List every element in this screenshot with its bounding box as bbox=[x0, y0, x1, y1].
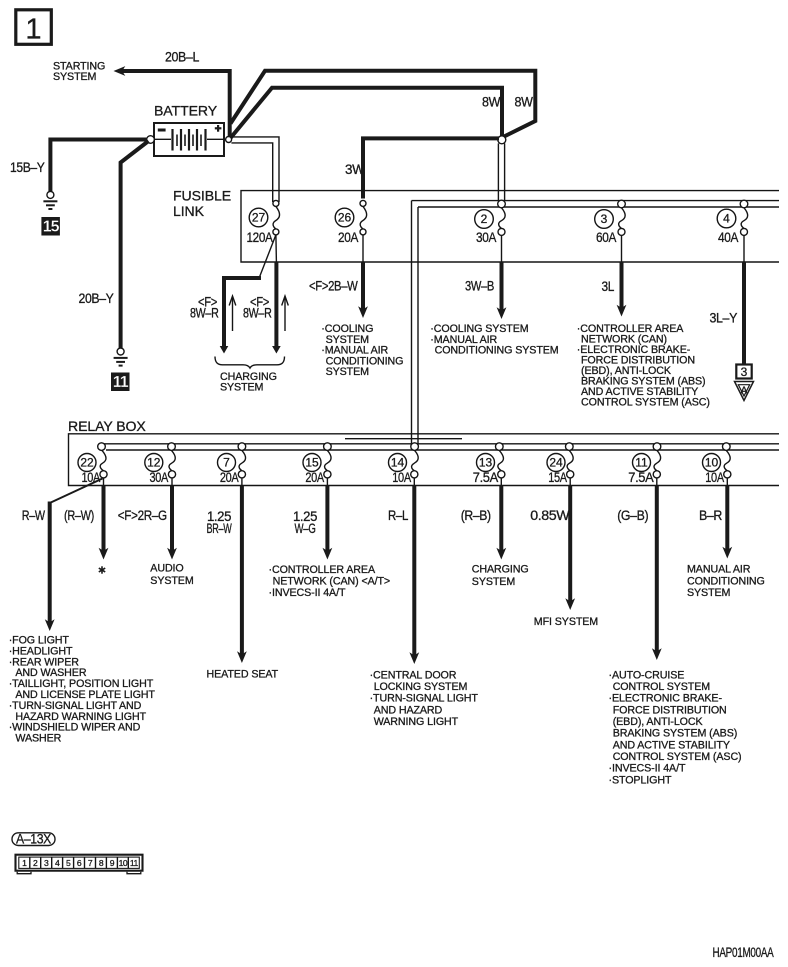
label AUDIO SYSTEM bbox=[150, 563, 194, 587]
svg-text:27: 27 bbox=[252, 211, 266, 225]
wire fuse 13 down bbox=[500, 478, 502, 552]
svg-text:CONTROL SYSTEM (ASC): CONTROL SYSTEM (ASC) bbox=[613, 751, 742, 763]
svg-text:NETWORK (CAN) <A/T>: NETWORK (CAN) <A/T> bbox=[273, 576, 390, 588]
wire 3W to fuse 26 bbox=[363, 138, 499, 198]
svg-text:6: 6 bbox=[77, 858, 82, 868]
wire fuse 15 down bbox=[326, 478, 328, 552]
svg-text:CONDITIONING: CONDITIONING bbox=[687, 575, 765, 587]
svg-text:SYSTEM: SYSTEM bbox=[53, 71, 97, 83]
wire fuse 2 down bbox=[501, 235, 503, 312]
svg-text:10A: 10A bbox=[392, 470, 411, 485]
arrowhead asterisk wire bbox=[99, 548, 109, 560]
svg-text:CONTROL SYSTEM (ASC): CONTROL SYSTEM (ASC) bbox=[581, 397, 710, 409]
fuse 7 bbox=[238, 443, 246, 478]
svg-text:·INVECS-II 4A/T: ·INVECS-II 4A/T bbox=[609, 763, 686, 775]
svg-text:B–R: B–R bbox=[699, 508, 723, 523]
svg-text:BRAKING SYSTEM (ABS): BRAKING SYSTEM (ABS) bbox=[613, 728, 738, 740]
ground 15 bbox=[43, 191, 57, 209]
label FUSIBLE LINK bbox=[173, 187, 231, 219]
label F 8W-R left bbox=[190, 294, 219, 320]
svg-text:AUDIO: AUDIO bbox=[150, 563, 183, 575]
bus wire down to relay box outer bbox=[411, 201, 413, 444]
wire fuse 27 to charging left bbox=[224, 235, 276, 346]
svg-text:·ELECTRONIC BRAKE-: ·ELECTRONIC BRAKE- bbox=[609, 693, 723, 705]
svg-text:5: 5 bbox=[66, 858, 71, 868]
svg-text:8W–R: 8W–R bbox=[243, 306, 272, 321]
fuse 13 bbox=[496, 443, 505, 478]
svg-text:R–L: R–L bbox=[388, 508, 409, 523]
wire battery minus to ground 15 bbox=[50, 140, 147, 192]
connector label A-13X bbox=[12, 831, 55, 846]
svg-text:1: 1 bbox=[25, 14, 41, 46]
svg-text:<F>2R–G: <F>2R–G bbox=[118, 508, 167, 523]
label F 8W-R right bbox=[243, 294, 272, 320]
fuse 12 number bbox=[145, 454, 163, 472]
svg-text:15: 15 bbox=[43, 219, 60, 236]
fuse 2 number bbox=[475, 210, 494, 229]
fuse 4 bbox=[740, 200, 748, 235]
svg-text:CONDITIONING SYSTEM: CONDITIONING SYSTEM bbox=[435, 345, 559, 357]
svg-text:FORCE DISTRIBUTION: FORCE DISTRIBUTION bbox=[613, 704, 727, 716]
off-page connector box 3 bbox=[736, 365, 751, 379]
wire 20B-Y to ground 11 bbox=[121, 141, 149, 348]
svg-text:FUSIBLE: FUSIBLE bbox=[173, 187, 231, 203]
svg-text:3: 3 bbox=[741, 365, 748, 379]
fuse 11 bbox=[653, 443, 661, 478]
fuse 14 number bbox=[389, 454, 407, 472]
svg-text:7: 7 bbox=[88, 858, 93, 868]
arrowhead fuse 3 bbox=[617, 305, 627, 317]
svg-text:2: 2 bbox=[481, 212, 488, 226]
svg-text:2: 2 bbox=[33, 858, 38, 868]
svg-text:SYSTEM: SYSTEM bbox=[150, 575, 194, 587]
svg-text:7: 7 bbox=[223, 456, 230, 470]
svg-text:7.5A: 7.5A bbox=[473, 470, 498, 485]
arrowhead manual air bbox=[722, 547, 732, 559]
svg-text:RELAY BOX: RELAY BOX bbox=[68, 418, 146, 434]
wire fuse 11 down bbox=[656, 478, 658, 653]
svg-text:10: 10 bbox=[705, 456, 719, 470]
svg-text:MANUAL AIR: MANUAL AIR bbox=[687, 564, 751, 576]
bus wire down to relay box inner bbox=[417, 207, 419, 444]
svg-text:LOCKING SYSTEM: LOCKING SYSTEM bbox=[374, 681, 468, 693]
wire fuse 26 down bbox=[362, 235, 364, 311]
list cooling system left bbox=[321, 323, 403, 378]
svg-text:R–W: R–W bbox=[22, 508, 46, 523]
fuse 22 bbox=[98, 443, 107, 478]
svg-text:20B–Y: 20B–Y bbox=[79, 291, 114, 306]
wire fuse 27 to charging right bbox=[275, 235, 278, 346]
fuse 13 number bbox=[477, 454, 495, 472]
svg-text:20A: 20A bbox=[338, 230, 358, 245]
connector A-13X body bbox=[16, 855, 143, 874]
svg-text:14: 14 bbox=[391, 456, 405, 470]
list CAN AT INVECS bbox=[269, 564, 391, 599]
wire double feed to fuse 2 bbox=[498, 143, 504, 201]
node junction 8W bbox=[498, 136, 506, 144]
fuse 26 bbox=[360, 200, 367, 235]
svg-text:SYSTEM: SYSTEM bbox=[220, 382, 264, 394]
wire 8W upper bbox=[231, 71, 536, 137]
fusible link bus rail upper bbox=[412, 200, 780, 202]
svg-text:BATTERY: BATTERY bbox=[154, 102, 218, 118]
svg-text:26: 26 bbox=[338, 211, 352, 225]
svg-text:4: 4 bbox=[55, 858, 60, 868]
terminal charging right bbox=[272, 346, 281, 354]
svg-text:4: 4 bbox=[723, 212, 730, 226]
arrowhead MFI bbox=[565, 598, 575, 610]
svg-text:3: 3 bbox=[601, 212, 608, 226]
svg-text:·CONTROLLER AREA: ·CONTROLLER AREA bbox=[269, 564, 376, 576]
svg-text:3L–Y: 3L–Y bbox=[710, 311, 738, 326]
svg-text:1: 1 bbox=[22, 858, 27, 868]
ground 11 bbox=[114, 348, 128, 366]
svg-text:BR–W: BR–W bbox=[207, 521, 232, 536]
svg-text:3: 3 bbox=[44, 858, 49, 868]
svg-text:AND HAZARD: AND HAZARD bbox=[374, 704, 443, 716]
svg-text:SYSTEM: SYSTEM bbox=[687, 587, 731, 599]
wire fuse 3 down bbox=[621, 235, 623, 309]
fuse 15 number bbox=[303, 454, 321, 472]
wire fuse 24 down bbox=[569, 478, 571, 603]
terminal charging left bbox=[220, 346, 229, 354]
svg-text:120A: 120A bbox=[247, 230, 273, 245]
fusible link bus rail lower bbox=[418, 206, 779, 208]
svg-text:(R–B): (R–B) bbox=[461, 508, 491, 523]
svg-text:·CENTRAL DOOR: ·CENTRAL DOOR bbox=[370, 669, 457, 681]
svg-text:·TURN-SIGNAL LIGHT: ·TURN-SIGNAL LIGHT bbox=[370, 693, 479, 705]
fuse 7 number bbox=[218, 454, 236, 472]
arrowhead audio system bbox=[167, 548, 177, 560]
arrowhead CAN AT bbox=[323, 548, 333, 560]
svg-text:LINK: LINK bbox=[173, 203, 205, 219]
svg-text:<F>2B–W: <F>2B–W bbox=[309, 279, 358, 294]
svg-text:8W–R: 8W–R bbox=[190, 306, 219, 321]
wire fuse 12 down bbox=[171, 478, 173, 552]
svg-text:WARNING LIGHT: WARNING LIGHT bbox=[374, 716, 459, 728]
brace charging system bbox=[215, 357, 285, 369]
label 1.25 BR-W bbox=[207, 509, 232, 536]
node bus to rail bbox=[411, 443, 419, 451]
fuse 14 bbox=[411, 450, 419, 478]
fuse 22 number bbox=[78, 454, 96, 472]
svg-text:10A: 10A bbox=[82, 470, 101, 485]
rail stub segment bbox=[345, 438, 462, 440]
svg-text:15A: 15A bbox=[548, 470, 567, 485]
fuse 24 bbox=[566, 443, 574, 478]
wire fuse 7 down bbox=[241, 478, 243, 656]
svg-text:11: 11 bbox=[113, 374, 129, 391]
svg-text:11: 11 bbox=[635, 456, 648, 470]
svg-text:A–13X: A–13X bbox=[16, 831, 51, 846]
svg-text:20B–L: 20B–L bbox=[165, 50, 200, 65]
wire battery plus to fuse 27 lower bbox=[231, 143, 272, 202]
relay box bbox=[69, 434, 780, 486]
arrowhead central door bbox=[409, 652, 419, 664]
ground reference box 15 bbox=[41, 217, 60, 236]
arrowhead fuse 2 bbox=[497, 307, 507, 319]
page number box 1 bbox=[16, 10, 52, 46]
svg-text:3W–B: 3W–B bbox=[465, 279, 494, 294]
arrowhead fog light bbox=[45, 619, 55, 631]
svg-text:7.5A: 7.5A bbox=[628, 470, 653, 485]
svg-text:13: 13 bbox=[479, 456, 493, 470]
svg-text:CHARGING: CHARGING bbox=[472, 564, 529, 576]
svg-text:(EBD), ANTI-LOCK: (EBD), ANTI-LOCK bbox=[613, 716, 704, 728]
fuse 15 bbox=[324, 443, 332, 478]
svg-text:60A: 60A bbox=[596, 230, 616, 245]
svg-text:HEATED SEAT: HEATED SEAT bbox=[207, 669, 279, 681]
svg-text:W–G: W–G bbox=[295, 521, 316, 536]
arrowhead auto-cruise bbox=[652, 648, 662, 660]
label CHARGING SYSTEM 2 bbox=[472, 564, 529, 588]
label MANUAL AIR CONDITIONING SYSTEM bbox=[687, 564, 765, 600]
list fog light headlight bbox=[9, 635, 156, 745]
arrow up right bbox=[282, 296, 289, 331]
svg-text:8: 8 bbox=[99, 858, 104, 868]
svg-text:(R–W): (R–W) bbox=[64, 508, 94, 523]
fuse 10 bbox=[723, 443, 731, 478]
svg-text:MFI SYSTEM: MFI SYSTEM bbox=[534, 616, 599, 628]
svg-text:9: 9 bbox=[110, 858, 115, 868]
fuse 12 bbox=[168, 443, 176, 478]
fuse 4 number bbox=[717, 209, 736, 228]
svg-text:3W: 3W bbox=[345, 162, 365, 177]
svg-text:3L: 3L bbox=[602, 279, 615, 294]
svg-text:12: 12 bbox=[147, 456, 161, 470]
off-page connector triangle A bbox=[735, 382, 754, 401]
svg-text:·STOPLIGHT: ·STOPLIGHT bbox=[609, 774, 673, 786]
fuse 27 number bbox=[249, 208, 268, 227]
svg-text:·INVECS-II 4A/T: ·INVECS-II 4A/T bbox=[269, 587, 346, 599]
svg-text:30A: 30A bbox=[150, 470, 169, 485]
fuse 10 number bbox=[703, 454, 721, 472]
svg-text:HAP01M00AA: HAP01M00AA bbox=[713, 945, 774, 960]
wire fuse 10 down bbox=[726, 478, 728, 551]
arrowhead starting system bbox=[114, 66, 126, 76]
fuse 27 bbox=[273, 200, 280, 235]
svg-text:CONTROL SYSTEM: CONTROL SYSTEM bbox=[613, 681, 711, 693]
fusible link box bbox=[241, 191, 779, 262]
svg-text:AND ACTIVE STABILITY: AND ACTIVE STABILITY bbox=[613, 739, 730, 751]
fuse 3 bbox=[618, 200, 626, 235]
wire 20B-L to starting system bbox=[119, 71, 230, 136]
label STARTING SYSTEM bbox=[53, 61, 105, 84]
svg-text:·AUTO-CRUISE: ·AUTO-CRUISE bbox=[609, 669, 685, 681]
ground reference box 11 bbox=[111, 373, 130, 392]
wire fuse 22 diagonal R-W bbox=[50, 479, 103, 625]
wire fuse 22 straight bbox=[103, 478, 105, 552]
list cooling system right bbox=[430, 323, 558, 356]
fuse 24 number bbox=[547, 454, 565, 472]
fuse 11 number bbox=[633, 454, 651, 472]
list central door locking bbox=[370, 669, 479, 728]
arrowhead heated seat bbox=[237, 651, 247, 663]
svg-text:A: A bbox=[740, 385, 747, 397]
svg-text:40A: 40A bbox=[718, 230, 738, 245]
svg-text:15: 15 bbox=[305, 456, 319, 470]
svg-text:24: 24 bbox=[549, 456, 563, 470]
fuse 3 number bbox=[595, 210, 614, 229]
svg-text:0.85W: 0.85W bbox=[530, 508, 570, 523]
svg-text:(G–B): (G–B) bbox=[617, 508, 648, 523]
connector A-13X pins 1-11 bbox=[22, 857, 138, 868]
relay box rail upper bbox=[102, 443, 780, 445]
wire fuse 14 down bbox=[413, 478, 415, 657]
svg-text:20A: 20A bbox=[220, 470, 239, 485]
wire battery plus to fuse 27 upper bbox=[231, 137, 279, 202]
battery B1 bbox=[154, 123, 224, 156]
svg-text:SYSTEM: SYSTEM bbox=[326, 366, 370, 378]
svg-text:20A: 20A bbox=[305, 470, 324, 485]
arrowhead charging system bbox=[496, 548, 506, 560]
svg-text:11: 11 bbox=[130, 858, 139, 868]
list auto-cruise stoplight bbox=[609, 669, 742, 786]
battery terminal node plus bbox=[226, 137, 232, 143]
svg-text:WASHER: WASHER bbox=[15, 733, 61, 745]
battery terminal node minus bbox=[147, 136, 155, 144]
svg-text:30A: 30A bbox=[476, 230, 496, 245]
svg-text:10: 10 bbox=[119, 858, 128, 868]
list CAN EBD ABS bbox=[577, 323, 710, 409]
wire 8W lower bbox=[231, 88, 503, 138]
svg-text:10A: 10A bbox=[705, 470, 724, 485]
svg-text:15B–Y: 15B–Y bbox=[10, 160, 45, 175]
wire fuse 4 down bbox=[743, 235, 745, 364]
label 1.25 W-G bbox=[293, 509, 317, 536]
fuse 26 number bbox=[335, 208, 354, 227]
label CHARGING SYSTEM bbox=[220, 371, 277, 393]
svg-text:SYSTEM: SYSTEM bbox=[472, 576, 516, 588]
fuse 2 bbox=[498, 200, 506, 235]
svg-text:22: 22 bbox=[80, 456, 94, 470]
arrowhead fuse 26 bbox=[358, 306, 368, 318]
arrow up left bbox=[229, 296, 236, 331]
relay box rail lower bbox=[106, 449, 779, 451]
svg-text:8W: 8W bbox=[515, 95, 534, 110]
svg-text:8W: 8W bbox=[482, 95, 501, 110]
label asterisk bbox=[99, 566, 105, 573]
